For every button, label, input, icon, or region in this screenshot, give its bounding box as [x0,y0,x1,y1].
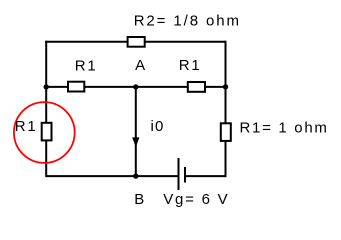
svg-text:R1: R1 [75,57,98,74]
svg-text:R2= 1/8 ohm: R2= 1/8 ohm [134,12,241,29]
svg-text:R1: R1 [15,118,38,135]
svg-text:R1: R1 [179,57,202,74]
svg-text:B: B [134,191,145,208]
svg-text:R1= 1 ohm: R1= 1 ohm [240,120,329,137]
svg-text:i0: i0 [151,118,165,135]
svg-text:Vg= 6 V: Vg= 6 V [163,191,229,208]
svg-text:A: A [135,57,146,74]
